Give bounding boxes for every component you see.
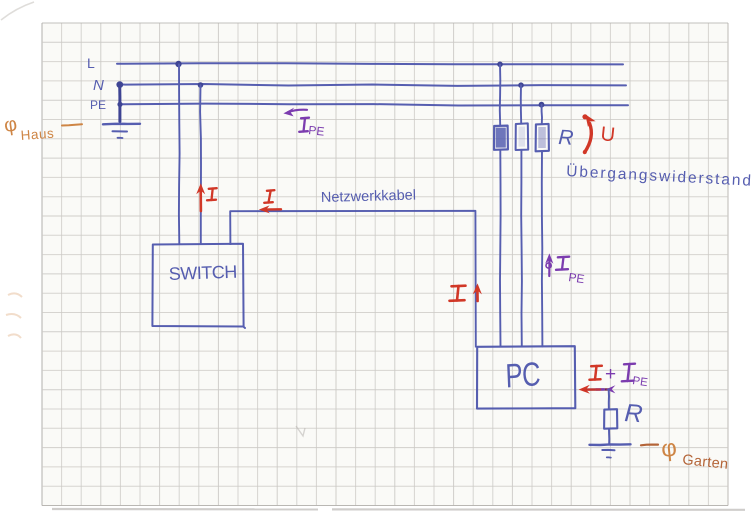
svg-text:N: N <box>93 77 104 94</box>
current arrow I+I_PE (left, into PC) <box>579 385 616 394</box>
label I + I_PE <box>590 364 649 389</box>
wire PE to R3 <box>541 105 543 124</box>
label R (contact resistances) <box>558 126 574 150</box>
lead line to phi Garten <box>641 444 658 447</box>
resistor R (garden earth) <box>604 409 617 429</box>
wire R3 to PC <box>541 151 544 347</box>
stray mark (bleed-through left edge) <box>6 293 22 338</box>
label I (red, switch) <box>207 188 217 200</box>
svg-text:L: L <box>87 55 95 71</box>
svg-text:Netzwerkkabel: Netzwerkkabel <box>321 188 416 206</box>
resistor R1 (contact resistance, L) <box>494 126 508 150</box>
label SWITCH <box>168 262 237 284</box>
svg-text:PE: PE <box>632 375 649 389</box>
label I_PE (purple, mid) <box>556 257 585 286</box>
node N-R2 junction <box>518 82 524 88</box>
current arrow I_PE (left, PE line) <box>283 108 307 117</box>
node PE start blob <box>117 102 122 107</box>
node N-earth junction <box>116 81 123 88</box>
wire network cable (SWITCH to PC) <box>230 211 476 347</box>
resistor R3 (contact resistance, PE) <box>536 124 549 151</box>
svg-text:PE: PE <box>308 123 325 139</box>
wire R2 to PC <box>520 150 523 347</box>
current arrow I_PE (up, PE conductor to PC) <box>545 253 553 276</box>
svg-text:+: + <box>605 364 616 385</box>
label L <box>87 55 95 71</box>
svg-text:φ: φ <box>660 434 678 462</box>
svg-text:R: R <box>558 126 574 150</box>
svg-text:SWITCH: SWITCH <box>168 262 237 284</box>
wire L to R1 <box>499 64 502 125</box>
PC box <box>477 346 575 408</box>
label I (red, network cable) <box>264 190 274 203</box>
node PE-R3 junction <box>539 102 545 108</box>
wire N (mains line N) <box>120 84 627 86</box>
label N <box>93 77 104 94</box>
svg-text:PE: PE <box>568 270 586 286</box>
wire N to R2 <box>520 85 522 123</box>
wire R1 to PC <box>499 150 502 347</box>
label PC <box>505 356 541 396</box>
label I (red, near PC) <box>450 286 466 301</box>
label phi Haus <box>3 113 55 143</box>
current arrow I (up, into mains from switch) <box>196 183 205 211</box>
voltage arc U (red) <box>582 114 595 154</box>
stray mark (faint pencil check) <box>296 426 305 436</box>
wire PE (mains line PE) <box>120 104 628 106</box>
label U (red) <box>599 123 616 146</box>
node L-switch junction <box>175 61 181 67</box>
ground (house earth) <box>103 124 140 138</box>
wire arrow-junction to R garden <box>608 390 610 410</box>
svg-text:Haus: Haus <box>20 126 54 143</box>
switch box SWITCH <box>152 244 245 328</box>
node N-switch junction <box>198 82 204 88</box>
ground (garden earth) <box>590 444 631 457</box>
wire L to SWITCH <box>178 64 181 244</box>
label PE <box>90 98 106 112</box>
current arrow I (left, network cable) <box>259 205 281 213</box>
label I_PE (purple, top) <box>299 118 325 139</box>
label R (garden) <box>624 399 644 428</box>
wire N to SWITCH <box>199 85 202 244</box>
svg-text:PE: PE <box>90 98 106 112</box>
lead line to phi Haus <box>62 124 82 125</box>
stray mark (top-left page corner) <box>1 2 34 20</box>
resistor R2 (contact resistance, N) <box>516 123 529 150</box>
current arrow I (up, network cable near PC) <box>473 283 482 301</box>
label Netzwerkkabel <box>321 188 416 206</box>
wire N to house earth <box>118 85 121 122</box>
svg-text:U: U <box>599 123 616 146</box>
label Übergangswiderstand <box>566 162 754 190</box>
wire L (mains line L) <box>117 63 623 64</box>
svg-text:R: R <box>624 399 644 428</box>
label phi Garten <box>660 434 729 472</box>
svg-text:PC: PC <box>505 356 541 396</box>
node L-R1 junction <box>497 62 503 68</box>
wire R garden to ground <box>608 429 610 444</box>
